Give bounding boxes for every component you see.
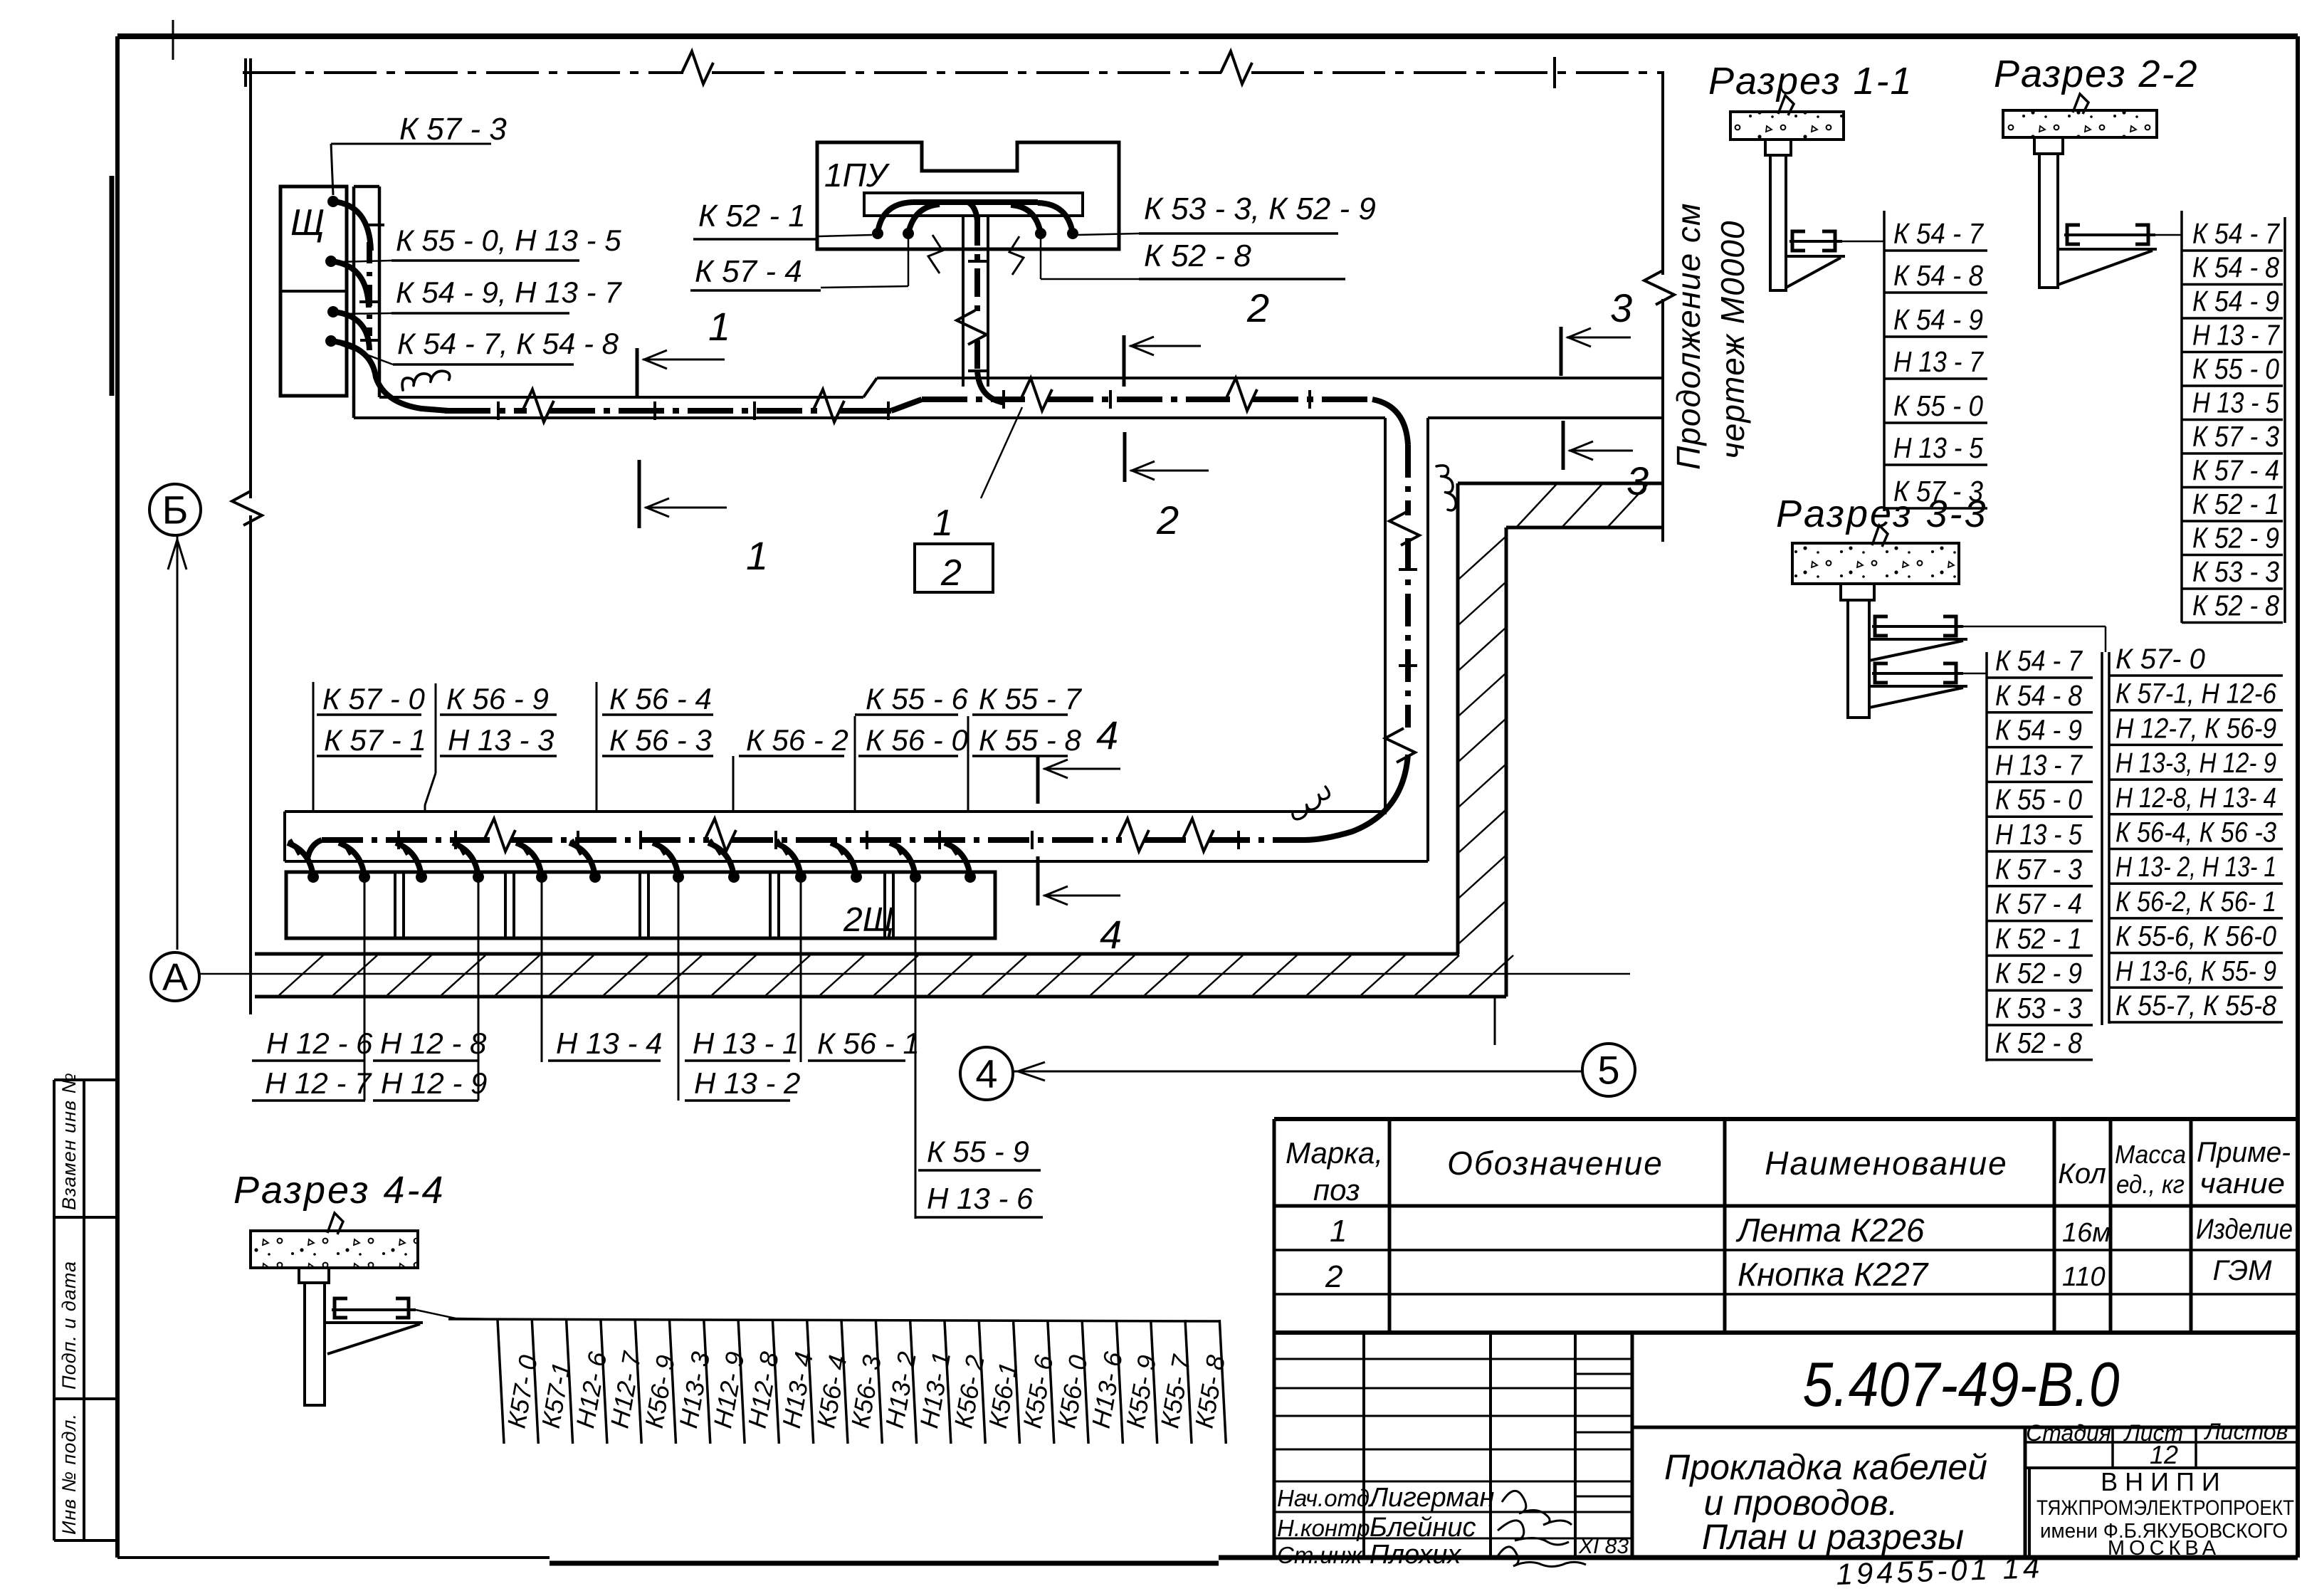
svg-text:К 57 - 3: К 57 - 3 [2192,420,2279,453]
arrow line between circles 4 and 5 [1014,1071,1582,1073]
svg-text:К 55 - 0: К 55 - 0 [2192,352,2279,385]
svg-text:Н 12 - 8: Н 12 - 8 [380,1027,487,1060]
svg-text:чание: чание [2199,1168,2285,1199]
svg-text:К 56 - 9: К 56 - 9 [446,682,549,715]
svg-text:Стадия: Стадия [2026,1420,2111,1446]
svg-text:2: 2 [940,552,962,594]
ceiling axis dash-dot line [243,71,683,74]
svg-text:Н 12 - 7: Н 12 - 7 [265,1066,372,1100]
svg-text:К 55 - 6: К 55 - 6 [866,682,968,715]
svg-text:Н 13 - 3: Н 13 - 3 [448,723,554,757]
svg-text:К 52 - 1: К 52 - 1 [2192,488,2279,520]
cabinet 2Щ outline [286,872,995,938]
svg-text:Н 13 - 7: Н 13 - 7 [2192,319,2281,352]
svg-text:Плохих: Плохих [1370,1540,1462,1570]
svg-text:Н 13 - 7: Н 13 - 7 [1893,345,1985,378]
svg-text:К 56 - 2: К 56 - 2 [746,723,848,757]
section 4-4 hanger channel [299,1268,329,1283]
cable terminal dot 3 (К54-9,Н13-7) [327,306,339,317]
svg-text:1: 1 [1330,1214,1347,1249]
svg-text:110: 110 [2062,1262,2106,1292]
svg-text:5.407-49-В.0: 5.407-49-В.0 [1803,1349,2120,1419]
section 3-3 bracket 2 [1875,663,1888,683]
svg-text:4: 4 [975,1051,997,1096]
section 1-1 concrete slab [1730,112,1844,140]
upper cable tray outline [379,396,863,399]
cable terminal dot 2 (К55-0,Н13-5) [325,256,337,267]
svg-text:Лигерман: Лигерман [1367,1483,1495,1513]
svg-text:К 52 - 1: К 52 - 1 [698,199,806,233]
specification table [1274,1117,2298,1121]
wall hatching [1516,485,1556,527]
svg-text:Лента К226: Лента К226 [1735,1212,1925,1249]
svg-text:Продолжение см: Продолжение см [1670,203,1707,470]
svg-text:К 57- 0: К 57- 0 [2116,644,2205,675]
cable list table (2-2) [2180,211,2183,623]
vertical reference line Б axis [249,58,252,498]
section 3-3 bracket 1 [1875,616,1888,636]
svg-text:МОСКВА: МОСКВА [2108,1537,2220,1560]
svg-text:К 52 - 1: К 52 - 1 [1995,922,2082,955]
section 2-2 support arm [2058,248,2157,251]
svg-text:К 55-6, К 56-0: К 55-6, К 56-0 [2116,921,2276,952]
svg-text:Н 13 - 4: Н 13 - 4 [556,1027,662,1060]
svg-text:К 55-7, К 55-8: К 55-7, К 55-8 [2116,990,2277,1022]
section 1-1 bracket [1792,231,1805,251]
cable list (3-3 right) [2108,652,2111,1024]
svg-text:Наименование: Наименование [1765,1145,2007,1182]
floor strip (hatched) [255,952,1459,956]
svg-text:К 55 - 0: К 55 - 0 [1995,783,2082,816]
svg-text:3: 3 [1610,285,1632,330]
section 4-4 support arm [325,1321,423,1324]
section 1-1 support arm [1786,255,1845,258]
svg-text:Изделие: Изделие [2196,1214,2293,1245]
lower cable tray outline [285,810,1385,813]
section 2-2 concrete slab [2003,110,2157,137]
svg-text:К 57 - 0: К 57 - 0 [322,682,425,715]
svg-text:К 55 - 9: К 55 - 9 [927,1135,1029,1168]
section 3-3 support arm 1 [1869,638,1967,641]
svg-text:К 55 - 0, Н 13 - 5: К 55 - 0, Н 13 - 5 [396,224,621,257]
leaders to lower labels [364,877,366,1101]
section 1-1 hanger channel [1765,140,1791,155]
svg-text:2Щ: 2Щ [843,901,894,939]
svg-text:К 57 - 4: К 57 - 4 [2192,454,2279,487]
svg-text:План и разрезы: План и разрезы [1702,1517,1964,1557]
svg-text:К 52 - 8: К 52 - 8 [2192,589,2279,622]
svg-text:ТЯЖПРОМЭЛЕКТРОПРОЕКТ: ТЯЖПРОМЭЛЕКТРОПРОЕКТ [2036,1496,2294,1520]
svg-text:ВНИПИ: ВНИПИ [2101,1467,2227,1496]
svg-text:1: 1 [708,304,730,349]
wall outline (plan) [1458,482,1663,485]
cable list (3-3 left) [1985,652,1988,1061]
svg-text:К 52 - 8: К 52 - 8 [1995,1027,2082,1059]
axis А thin line [199,973,1630,975]
panel Щ outline [280,187,347,396]
leaders to cable lists [1963,626,2106,628]
svg-text:Н 13 - 7: Н 13 - 7 [1995,748,2083,781]
rotated cable name strip [448,1319,1219,1321]
cable bundle from panel Щ into tray [333,201,371,251]
svg-text:К 57 - 3: К 57 - 3 [399,112,507,147]
svg-text:2: 2 [1246,285,1269,330]
organisation name block [2028,1468,2031,1558]
svg-text:К 54 - 9: К 54 - 9 [1995,714,2082,747]
svg-text:К 52 - 9: К 52 - 9 [1995,957,2082,989]
cable list table (1-1) [1883,211,1886,511]
svg-text:Н 13 - 6: Н 13 - 6 [927,1182,1034,1215]
svg-text:12: 12 [2150,1440,2178,1469]
svg-text:К 54 - 8: К 54 - 8 [1893,259,1983,292]
svg-text:К 52 - 8: К 52 - 8 [1144,238,1251,273]
section 2-2 hanger channel [2034,137,2063,154]
axis mark А (circle) [151,952,199,1001]
sheet frame border [117,33,2298,39]
svg-text:К 57 - 4: К 57 - 4 [1995,888,2082,920]
svg-text:Прокладка кабелей: Прокладка кабелей [1664,1447,1987,1487]
terminal strip inside 1ПУ [864,193,1083,216]
svg-text:Обозначение: Обозначение [1447,1145,1664,1182]
svg-text:К 53 - 3: К 53 - 3 [2192,555,2279,588]
section marker 4-4 upper [1036,757,1040,804]
svg-text:Кол: Кол [2058,1158,2106,1190]
leader to cable list [2155,234,2182,236]
svg-text:К 54 - 9: К 54 - 9 [2192,285,2279,317]
svg-text:1: 1 [932,503,953,544]
svg-text:К 57-1, Н 12-6: К 57-1, Н 12-6 [2116,678,2277,710]
push-button station 1ПУ outline [817,142,1119,249]
svg-text:К 54 - 7: К 54 - 7 [2192,217,2281,250]
descending cable run [1405,445,1411,515]
lower tray cable run [308,840,322,859]
svg-text:К 53 - 3: К 53 - 3 [1995,992,2082,1024]
cable arcs inside 1ПУ [878,202,913,233]
svg-text:Листов: Листов [2204,1419,2288,1444]
1ПУ cable dot 3 [1035,228,1046,239]
margin stamp boxes [54,1078,117,1081]
leader to cable strip [416,1310,456,1318]
svg-text:К 56 - 4: К 56 - 4 [609,682,712,715]
node mark 5 (circle) [1582,1044,1635,1096]
axis mark Б (circle with arrow) [149,484,201,535]
svg-text:Н 12 - 9: Н 12 - 9 [381,1066,487,1100]
section marker 4-4 lower [1036,856,1040,905]
strain loops [928,235,942,273]
svg-text:К 56 - 0: К 56 - 0 [866,723,968,757]
section 3-3 support arm 2 [1869,685,1967,688]
svg-text:4: 4 [1096,713,1118,757]
vertical tray (right) outline [1384,418,1387,814]
svg-text:Подп. и дата: Подп. и дата [58,1261,80,1390]
svg-text:Кнопка К227: Кнопка К227 [1738,1256,1929,1293]
section marker 3-3 lower [1562,421,1565,470]
svg-text:К 53 - 3, К 52 - 9: К 53 - 3, К 52 - 9 [1144,191,1376,226]
vertical tray below 1ПУ [962,216,965,387]
svg-text:Разрез 4-4: Разрез 4-4 [233,1169,446,1212]
svg-text:Н 13-3, Н 12- 9: Н 13-3, Н 12- 9 [2116,747,2276,779]
vertical cable tray at panel Щ [352,187,356,418]
svg-text:К 56 - 3: К 56 - 3 [609,723,712,757]
1ПУ cable dot 2 [903,228,914,239]
svg-text:Н 13 - 5: Н 13 - 5 [1893,431,1983,464]
svg-text:5: 5 [1597,1048,1619,1093]
svg-text:ед., кг: ед., кг [2116,1170,2185,1199]
section 4-4 concrete slab [251,1231,418,1268]
svg-text:2: 2 [1156,498,1179,542]
section marker 1-1 lower [638,460,641,528]
title block [1273,1333,1276,1558]
1ПУ cable dot 4 [1067,228,1078,239]
svg-text:чертеж М0000: чертеж М0000 [1714,221,1751,459]
svg-text:3: 3 [1626,458,1649,503]
svg-text:К 54 - 8: К 54 - 8 [1995,679,2082,712]
svg-text:К 56-4, К 56 -3: К 56-4, К 56 -3 [2116,817,2276,849]
svg-text:К 54 - 7, К 54 - 8: К 54 - 7, К 54 - 8 [397,327,619,360]
svg-text:К 57 - 3: К 57 - 3 [1995,853,2082,886]
svg-text:1: 1 [746,533,768,578]
cable bundle descending from 1ПУ [974,217,980,313]
svg-text:2: 2 [1325,1259,1342,1294]
leader lines to tray labels (upper row) [312,682,315,812]
svg-text:Н 13- 2, Н 13- 1: Н 13- 2, Н 13- 1 [2116,851,2276,883]
svg-text:К 55 - 8: К 55 - 8 [979,723,1081,757]
section 2-2 bracket [2067,225,2080,244]
svg-text:1ПУ: 1ПУ [824,157,890,194]
section marker 3-3 upper [1560,327,1563,376]
signatures (handwritten) [1502,1491,1572,1525]
svg-text:К 54 - 7: К 54 - 7 [1893,217,1985,250]
cable terminal dot 1 (К57-3) [327,196,339,207]
leader to cable list [1842,241,1884,243]
svg-text:К 54 - 8: К 54 - 8 [2192,251,2279,284]
svg-text:Б: Б [162,488,189,532]
svg-text:Марка,: Марка, [1286,1136,1383,1170]
svg-text:Н 13 - 5: Н 13 - 5 [2192,387,2279,419]
svg-text:Н 13 - 1: Н 13 - 1 [693,1027,799,1060]
svg-text:К 55 - 0: К 55 - 0 [1893,389,1983,422]
node mark 4 (circle) [960,1047,1013,1100]
svg-text:К 56-2, К 56- 1: К 56-2, К 56- 1 [2116,886,2276,918]
svg-text:К 57 - 1: К 57 - 1 [324,723,426,757]
svg-text:Блейнис: Блейнис [1370,1513,1476,1543]
drawing continuation boundary line [1661,71,1664,275]
svg-text:Разрез 2-2: Разрез 2-2 [1994,53,2199,95]
svg-text:поз: поз [1313,1173,1360,1207]
svg-text:К 54 - 9, Н 13 - 7: К 54 - 9, Н 13 - 7 [396,275,622,309]
cabinet cable dots and risers [308,871,319,883]
svg-text:Разрез 1-1: Разрез 1-1 [1708,60,1913,103]
section marker 2-2 upper [1123,335,1126,387]
svg-text:4: 4 [1100,912,1122,957]
svg-text:Н 13 - 2: Н 13 - 2 [694,1066,800,1100]
upper tray cable run [445,408,527,414]
svg-text:Н 12-7, К 56-9: Н 12-7, К 56-9 [2116,713,2276,744]
section 4-4 bracket [335,1298,347,1318]
svg-text:Инв № подл.: Инв № подл. [58,1413,80,1535]
svg-text:ГЭМ: ГЭМ [2213,1255,2273,1286]
svg-text:Взамен инв №: Взамен инв № [58,1072,80,1210]
svg-text:Ст.инж: Ст.инж [1277,1542,1363,1568]
section marker 1-1 upper [636,348,639,396]
svg-text:К 56 - 1: К 56 - 1 [817,1027,920,1060]
svg-text:К 52 - 9: К 52 - 9 [2192,522,2279,555]
svg-text:Щ: Щ [290,202,325,243]
svg-text:XI 83: XI 83 [1578,1535,1629,1558]
svg-text:Н 12-8, Н 13- 4: Н 12-8, Н 13- 4 [2116,782,2276,814]
svg-text:Н 12 - 6: Н 12 - 6 [266,1027,373,1060]
svg-text:К 57 - 4: К 57 - 4 [695,254,802,289]
1ПУ cable dot 1 [872,228,883,239]
svg-text:Н 13 - 5: Н 13 - 5 [1995,818,2082,851]
svg-text:Приме-: Приме- [2197,1137,2291,1168]
section marker 2-2 lower [1123,432,1127,482]
section 3-3 concrete slab [1792,543,1959,584]
svg-text:16м: 16м [2062,1218,2111,1248]
svg-text:Нач.отд.: Нач.отд. [1277,1485,1376,1511]
cable bend down to vertical tray [1372,399,1408,445]
svg-text:К 54 - 9: К 54 - 9 [1893,303,1983,336]
cable terminal dot 4 (К54-7,К54-8) [325,335,337,347]
fold mark [172,20,174,60]
svg-text:Н 13-6, К 55- 9: Н 13-6, К 55- 9 [2116,955,2276,987]
svg-text:К 55 - 7: К 55 - 7 [979,682,1082,715]
svg-text:Масса: Масса [2115,1140,2186,1169]
section 3-3 hanger channel [1841,584,1874,600]
svg-text:Н.контр: Н.контр [1277,1515,1370,1541]
svg-text:А: А [162,956,188,999]
Стадия Лист Листов block [2025,1426,2298,1429]
cable bend into lower tray [1304,755,1408,840]
svg-text:К 54 - 7: К 54 - 7 [1995,644,2083,677]
